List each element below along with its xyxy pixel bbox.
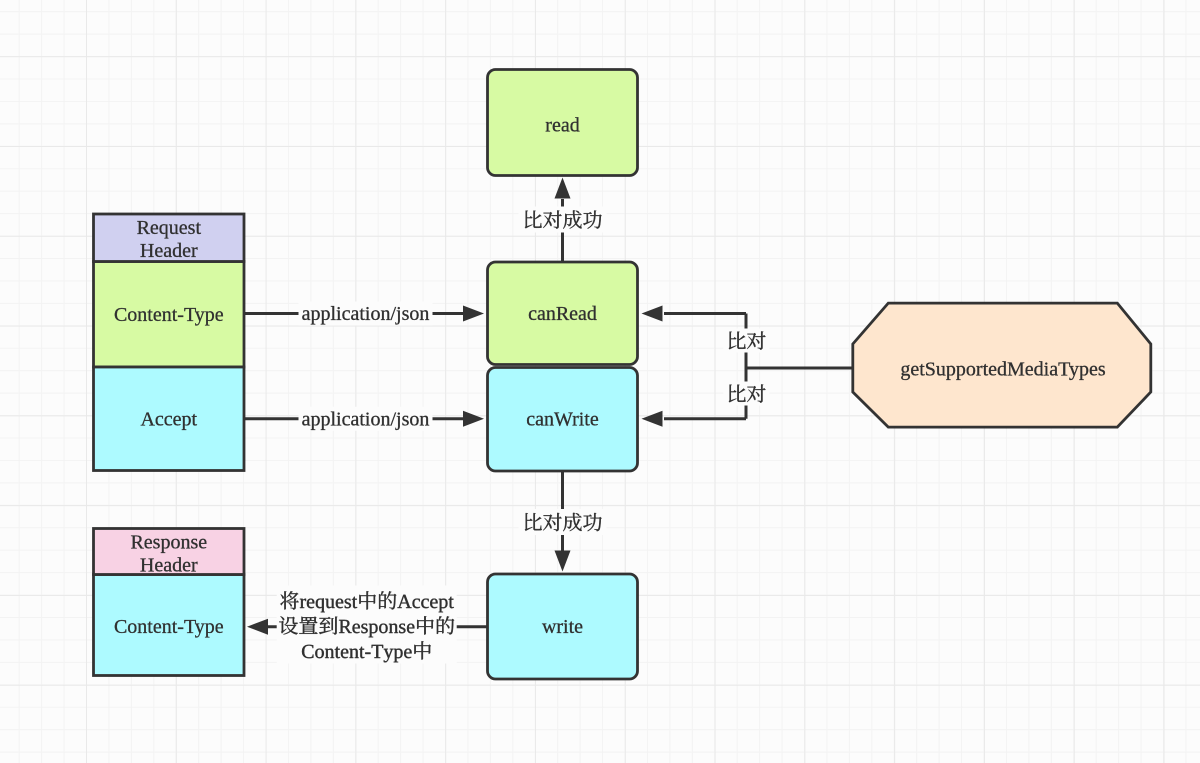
label 比对 (lower) bbox=[723, 382, 769, 406]
svg-text:application/json: application/json bbox=[302, 303, 430, 325]
wire branch to canWrite bbox=[642, 411, 747, 427]
node write bbox=[488, 574, 638, 679]
svg-text:canRead: canRead bbox=[528, 303, 597, 325]
svg-text:application/json: application/json bbox=[302, 408, 430, 430]
svg-text:Accept: Accept bbox=[140, 408, 197, 430]
label 比对成功 (lower) bbox=[519, 509, 607, 535]
label 比对 (upper) bbox=[723, 329, 769, 353]
node canRead bbox=[488, 262, 638, 365]
label 比对成功 (upper) bbox=[519, 207, 607, 233]
wire write to Response Content-Type bbox=[247, 619, 487, 635]
wire read-up bbox=[555, 178, 571, 263]
svg-text:Response: Response bbox=[130, 532, 207, 554]
wire branch to canRead bbox=[642, 306, 747, 322]
svg-text:read: read bbox=[545, 115, 579, 137]
node getSupportedMediaTypes (octagon) bbox=[853, 303, 1151, 427]
label 将request中的Accept 设置到Response中的 Content-Type中 bbox=[277, 586, 457, 664]
svg-text:write: write bbox=[542, 616, 583, 638]
label application/json (lower) bbox=[299, 407, 433, 431]
wire canWrite to write bbox=[555, 471, 571, 572]
table Request Header bbox=[94, 214, 245, 471]
svg-text:Header: Header bbox=[140, 240, 198, 262]
svg-text:Header: Header bbox=[140, 555, 198, 577]
svg-text:getSupportedMediaTypes: getSupportedMediaTypes bbox=[900, 359, 1105, 381]
table Response Header bbox=[94, 529, 245, 676]
wire getSupportedMediaTypes trunk bbox=[746, 314, 853, 419]
svg-text:canWrite: canWrite bbox=[526, 408, 599, 430]
svg-text:Content-Type: Content-Type bbox=[114, 616, 224, 638]
svg-text:Content-Type: Content-Type bbox=[114, 304, 224, 326]
node read bbox=[488, 70, 638, 176]
wire Accept to canWrite bbox=[244, 411, 484, 427]
node canWrite bbox=[488, 368, 638, 472]
svg-text:Request: Request bbox=[137, 217, 202, 239]
label application/json (upper) bbox=[299, 302, 433, 326]
wire Content-Type to canRead bbox=[244, 306, 484, 322]
